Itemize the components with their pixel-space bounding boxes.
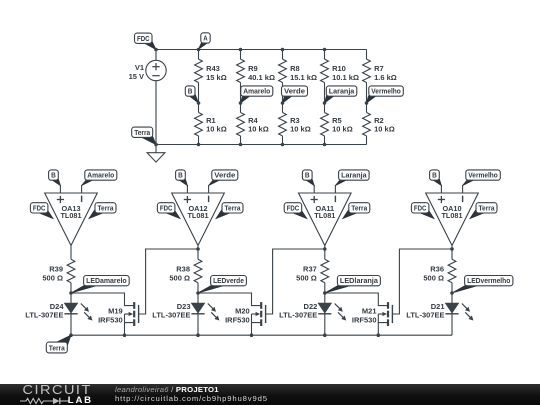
wire OA10 output: [451, 246, 453, 260]
svg-text:Vermelho: Vermelho: [371, 87, 401, 96]
ground symbol: [147, 145, 165, 163]
flag LEDvermelho: [452, 276, 513, 293]
flag FDC (OA12 V+): [157, 203, 180, 219]
wire D24 node to M19 drain: [71, 293, 133, 306]
svg-text:LTL-307EE: LTL-307EE: [152, 310, 190, 319]
resistor R37 500 ohm: [296, 259, 329, 335]
svg-text:10 kΩ: 10 kΩ: [206, 125, 227, 134]
junction dot OA12 output node: [196, 247, 200, 251]
LED D23 light arrows: [208, 304, 220, 321]
svg-text:LEDlaranja: LEDlaranja: [340, 276, 379, 285]
resistor R2 10 kohm: [363, 103, 395, 145]
wire D22 node to M21 drain: [325, 293, 387, 306]
resistor R43 15 kohm: [195, 50, 227, 104]
svg-text:TL081: TL081: [314, 211, 335, 220]
svg-text:Terra: Terra: [98, 203, 115, 212]
CircuitLab logo: [20, 384, 118, 405]
wire M20 gate from OA11 output: [266, 249, 325, 314]
node B flag: [185, 86, 198, 103]
LED D22 LTL-307EE: [279, 302, 331, 319]
svg-text:M20: M20: [235, 307, 250, 316]
node Verde flag: [282, 86, 308, 103]
svg-text:Verde: Verde: [214, 171, 235, 180]
svg-text:FDC: FDC: [137, 34, 150, 43]
junction dots top rail: [154, 48, 326, 52]
wire OA11 input stubs: [314, 185, 335, 193]
svg-text:B: B: [305, 171, 310, 180]
node B flag (OA13 +): [49, 170, 61, 186]
LED D21 LTL-307EE: [406, 302, 458, 319]
wire M19 gate from OA12 output: [139, 249, 198, 314]
flag FDC (OA13 V+): [30, 203, 53, 219]
svg-text:40.1 kΩ: 40.1 kΩ: [248, 73, 275, 82]
op-amp OA12 TL081: [172, 193, 225, 246]
node Amarelo flag (OA13 -): [82, 170, 117, 186]
op-amp OA13 TL081: [45, 193, 98, 246]
svg-text:Terra: Terra: [225, 203, 242, 212]
flag Terra (OA12 V-): [216, 203, 243, 219]
svg-text:LTL-307EE: LTL-307EE: [25, 310, 63, 319]
svg-text:LEDamarelo: LEDamarelo: [86, 276, 127, 285]
svg-text:V1: V1: [135, 63, 144, 72]
LED D23 LTL-307EE: [152, 302, 204, 319]
junction dot OA11 LED node: [323, 291, 327, 295]
node Verde flag (OA12 -): [209, 170, 238, 186]
flag Terra (ground net): [132, 127, 156, 144]
svg-text:15 V: 15 V: [129, 72, 144, 81]
svg-text:10 kΩ: 10 kΩ: [374, 125, 395, 134]
transistor M21 IRF530: [352, 302, 393, 335]
svg-text:Amarelo: Amarelo: [243, 87, 270, 96]
flag Terra (bottom rail): [46, 335, 71, 353]
svg-text:15.1 kΩ: 15.1 kΩ: [290, 73, 317, 82]
svg-text:10 kΩ: 10 kΩ: [248, 125, 269, 134]
flag FDC (OA11 V+): [284, 203, 307, 219]
svg-text:IRF530: IRF530: [352, 316, 377, 325]
svg-text:IRF530: IRF530: [225, 316, 250, 325]
resistor R8 15.1 kohm: [279, 50, 317, 104]
LED D24 LTL-307EE: [25, 302, 77, 319]
svg-text:FDC: FDC: [33, 203, 46, 212]
svg-text:TL081: TL081: [441, 211, 462, 220]
svg-text:Terra: Terra: [134, 128, 151, 137]
resistor R10 10.1 kohm: [321, 50, 359, 104]
wire bottom rail: [156, 144, 367, 146]
svg-text:15 kΩ: 15 kΩ: [206, 73, 227, 82]
wire M21 gate from OA10 output: [392, 249, 452, 314]
wire top rail: [156, 49, 367, 51]
node Vermelho flag: [367, 86, 404, 103]
svg-text:R8: R8: [290, 64, 300, 73]
LED D24 light arrows: [81, 304, 93, 321]
footer bar: [0, 384, 540, 405]
flag LEDlaranja: [325, 276, 380, 293]
junction dot OA12 LED node: [196, 291, 200, 295]
svg-text:Laranja: Laranja: [329, 87, 355, 96]
junction dot OA10 output node: [450, 247, 454, 251]
svg-text:Verde: Verde: [284, 87, 305, 96]
svg-text:LEDverde: LEDverde: [213, 276, 244, 285]
node B flag (OA11 +): [302, 170, 314, 186]
svg-text:M21: M21: [362, 307, 377, 316]
svg-text:B: B: [188, 87, 193, 96]
LED D21 light arrows: [462, 304, 474, 321]
svg-text:10 kΩ: 10 kΩ: [332, 125, 353, 134]
wire OA12 input stubs: [187, 185, 208, 193]
flag FDC (supply net): [135, 33, 157, 49]
wire bottom ground rail: [71, 334, 452, 336]
svg-text:Terra: Terra: [351, 203, 368, 212]
junction dot OA10 LED node: [450, 291, 454, 295]
resistor R39 500 ohm: [42, 259, 75, 335]
transistor M19 IRF530: [98, 302, 139, 335]
node Laranja flag (OA11 -): [335, 170, 369, 186]
wire OA10 input stubs: [441, 185, 462, 193]
svg-text:Vermelho: Vermelho: [468, 171, 498, 180]
wire OA13 output: [70, 246, 72, 260]
wire OA13 input stubs: [60, 185, 81, 193]
wire OA11 output: [324, 246, 326, 260]
svg-text:R10: R10: [332, 64, 346, 73]
svg-text:R9: R9: [248, 64, 258, 73]
svg-text:B: B: [432, 171, 437, 180]
junction dot OA11 output node: [323, 247, 327, 251]
svg-text:500 Ω: 500 Ω: [423, 273, 444, 282]
wire D23 node to M20 drain: [198, 293, 260, 306]
svg-text:Terra: Terra: [49, 343, 66, 352]
junction dots ground rail: [69, 333, 380, 337]
resistor R9 40.1 kohm: [237, 50, 275, 104]
svg-text:FDC: FDC: [414, 203, 427, 212]
node Laranja flag: [325, 86, 357, 103]
svg-text:B: B: [51, 171, 56, 180]
svg-text:TL081: TL081: [60, 211, 81, 220]
resistor R36 500 ohm: [423, 259, 456, 335]
svg-text:IRF530: IRF530: [98, 316, 123, 325]
flag Terra (OA13 V-): [89, 203, 116, 219]
svg-text:500 Ω: 500 Ω: [296, 273, 317, 282]
svg-text:R7: R7: [374, 64, 384, 73]
node Amarelo flag: [241, 86, 273, 103]
flag Terra (OA11 V-): [343, 203, 370, 219]
svg-text:FDC: FDC: [160, 203, 173, 212]
resistor R5 10 kohm: [321, 103, 353, 145]
node Vermelho flag (OA10 -): [463, 170, 501, 186]
svg-text:M19: M19: [108, 307, 123, 316]
resistor R38 500 ohm: [169, 259, 202, 335]
svg-text:LTL-307EE: LTL-307EE: [406, 310, 444, 319]
svg-text:FDC: FDC: [287, 203, 300, 212]
svg-text:R43: R43: [206, 64, 220, 73]
op-amp OA10 TL081: [426, 193, 479, 246]
LED D22 light arrows: [335, 304, 347, 321]
resistor R4 10 kohm: [237, 103, 269, 145]
resistor R3 10 kohm: [279, 103, 311, 145]
svg-text:TL081: TL081: [187, 211, 208, 220]
voltage source V1 15 V: [129, 50, 167, 145]
svg-text:LTL-307EE: LTL-307EE: [279, 310, 317, 319]
node B flag (OA10 +): [430, 170, 442, 186]
svg-text:1.6 kΩ: 1.6 kΩ: [374, 73, 397, 82]
svg-text:Terra: Terra: [479, 203, 496, 212]
transistor M20 IRF530: [225, 302, 266, 335]
node A flag: [199, 33, 211, 49]
junction dots bottom rail: [154, 143, 326, 147]
footer text: [115, 385, 268, 404]
wire OA12 output: [197, 246, 199, 260]
svg-text:10 kΩ: 10 kΩ: [290, 125, 311, 134]
svg-text:A: A: [203, 34, 208, 43]
svg-text:Laranja: Laranja: [341, 171, 367, 180]
svg-text:Amarelo: Amarelo: [87, 171, 114, 180]
flag FDC (OA10 V+): [411, 203, 434, 219]
svg-text:10.1 kΩ: 10.1 kΩ: [332, 73, 359, 82]
svg-text:LEDvermelho: LEDvermelho: [467, 276, 511, 285]
resistor R7 1.6 kohm: [363, 50, 397, 104]
node B flag (OA12 +): [176, 170, 188, 186]
svg-text:500 Ω: 500 Ω: [169, 273, 190, 282]
svg-text:500 Ω: 500 Ω: [42, 273, 63, 282]
flag Terra (OA10 V-): [470, 203, 497, 219]
junction dot OA13 LED node: [69, 291, 73, 295]
svg-text:B: B: [178, 171, 183, 180]
flag LEDamarelo: [71, 276, 129, 293]
flag LEDverde: [198, 276, 246, 293]
op-amp OA11 TL081: [299, 193, 352, 246]
junction dots mid nodes: [197, 101, 369, 105]
resistor R1 10 kohm: [195, 103, 227, 145]
